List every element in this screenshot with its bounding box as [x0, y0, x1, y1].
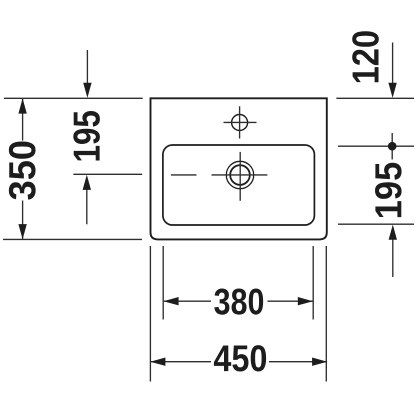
380 arrow right [298, 297, 313, 305]
bottom-left extension line [3, 238, 142, 240]
extension line outer left [149, 246, 151, 382]
label 195 left [73, 111, 100, 161]
450 arrow left [150, 358, 165, 366]
350 arrow down [18, 224, 26, 239]
label 195 right [375, 163, 402, 217]
195 left tick line [73, 173, 142, 175]
mid-right reference line [338, 145, 414, 147]
195 left bottom arrow stem [86, 187, 88, 224]
195 right bottom arrow stem [392, 237, 394, 277]
450 dimension line right segment [269, 361, 326, 363]
120 extension line top right [336, 97, 414, 99]
450 arrow right [312, 358, 327, 366]
120 arrow down [388, 83, 396, 98]
350 dimension line lower segment [22, 201, 24, 239]
195 left arrow up [83, 175, 91, 190]
drain crosshair horizontal [212, 174, 268, 176]
350 arrow up [18, 98, 26, 113]
label 380 [214, 289, 263, 315]
drain centerline dash left [171, 174, 197, 176]
195 left top arrow stem [86, 50, 88, 85]
extension line bowl left [162, 246, 164, 320]
380 dimension line right segment [268, 300, 314, 302]
label 450 [214, 345, 266, 371]
350 dimension line upper segment [22, 99, 24, 141]
drain outer circle [226, 161, 253, 188]
lower-right reference line [338, 223, 414, 225]
reference dot [388, 142, 397, 151]
basin inner bowl [163, 145, 315, 225]
basin outer outline [151, 98, 327, 239]
380 arrow left [163, 297, 178, 305]
mid-right stem through dot [391, 133, 393, 160]
label 350 [9, 141, 36, 199]
195 right arrow up [389, 225, 397, 240]
extension line outer right [325, 246, 327, 382]
380 dimension line left segment [164, 300, 211, 302]
drain crosshair vertical [239, 152, 241, 201]
faucet hole circle [232, 115, 248, 131]
top-left extension line [4, 97, 143, 99]
label 120 [352, 31, 379, 82]
extension line bowl right [312, 246, 314, 320]
450 dimension line left segment [151, 361, 211, 363]
drain inner circle [230, 165, 250, 185]
faucet hole crosshair horizontal [224, 121, 257, 123]
120 arrow stem [392, 43, 394, 86]
195 left arrow down [83, 83, 91, 98]
faucet hole crosshair vertical [239, 106, 241, 138]
